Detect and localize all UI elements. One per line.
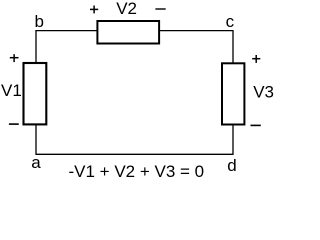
wire node c down to V3 top terminal [232,30,234,63]
wire node b down to V1 top terminal [35,30,37,63]
svg-text:-V1 + V2 + V3 = 0: -V1 + V2 + V3 = 0 [69,162,205,181]
V1 polarity plus sign [10,54,19,62]
V3 polarity minus sign [251,124,261,126]
wire V3 bottom terminal down to node d [232,125,234,155]
svg-text:a: a [31,153,41,172]
svg-text:d: d [227,156,236,175]
wire V2 right terminal to node c [159,30,233,32]
svg-text:b: b [35,12,44,31]
svg-text:V2: V2 [116,0,137,18]
V3 polarity plus sign [252,55,260,63]
wire node b to V2 left terminal [36,30,97,32]
source V1 box [24,63,47,124]
source V2 box [97,21,159,44]
V1 polarity minus sign [9,123,19,125]
svg-text:V1: V1 [1,81,22,100]
wire V1 bottom terminal down to node a [35,125,37,155]
source V3 box [222,63,244,124]
wire node a to node d (bottom return) [36,153,233,155]
V2 polarity plus sign [90,6,98,14]
V2 polarity minus sign [155,8,165,10]
svg-text:V3: V3 [253,82,274,101]
svg-text:c: c [226,12,235,31]
